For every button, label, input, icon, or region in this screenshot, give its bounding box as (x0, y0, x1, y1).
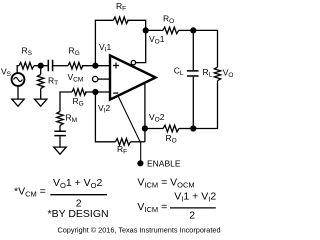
wire RF lower feedback (95, 92, 115, 142)
svg-text:ENABLE: ENABLE (147, 159, 181, 169)
svg-text:VI1 + VI2: VI1 + VI2 (174, 191, 216, 204)
resistor RF (upper) (113, 17, 128, 24)
wire capacitor to RG (53, 65, 68, 67)
node top right (190, 27, 196, 33)
wire RG lower to op-amp - input (85, 91, 110, 93)
resistor RM (57, 112, 63, 126)
wire RL to bottom rail (193, 81, 217, 129)
wire RG to op-amp + input (82, 65, 110, 67)
wire CL branch top (192, 30, 194, 70)
capacitor CL (187, 71, 199, 76)
wire bottom node to RO lower (179, 128, 193, 130)
wire VO1 rail with RO (146, 29, 163, 31)
ground (VS) (12, 99, 24, 106)
resistor RO (upper) (163, 27, 179, 34)
node VO1 (143, 27, 149, 33)
resistor RL (214, 67, 220, 80)
wire RO to top node (179, 29, 194, 31)
ground (RT) (35, 99, 47, 106)
resistor RO (lower) (163, 125, 179, 132)
ENABLE terminal (137, 160, 143, 166)
wire top node to RL corner (193, 30, 217, 67)
wire capacitor to ground (59, 136, 61, 147)
wire CL to bottom node (192, 77, 194, 129)
wire RT branch (40, 66, 42, 75)
node VCM (open circle) (93, 76, 98, 81)
wire RS to capacitor (34, 65, 48, 67)
resistor RS (19, 62, 34, 69)
wire VS bottom to ground (17, 86, 19, 99)
ground (RM) (54, 147, 66, 154)
capacitor (below RM) (54, 131, 66, 135)
wire RF upper to VO1 node (127, 20, 146, 30)
wire op-amp lower output down (144, 84, 146, 142)
resistor RG (lower) (72, 89, 86, 96)
wire bubble to VO1 node (136, 30, 146, 62)
wire RF upper feedback (95, 20, 113, 65)
svg-text:Copyright © 2016, Texas Instru: Copyright © 2016, Texas Instruments Inco… (57, 225, 220, 234)
svg-text:*BY DESIGN: *BY DESIGN (48, 208, 109, 220)
wire RT to ground (40, 88, 42, 99)
node VO2 (142, 125, 148, 131)
wire RF lower to output branch (131, 141, 145, 143)
resistor RG (upper) (68, 62, 83, 69)
wire RM branch corner (60, 92, 72, 112)
node VI1 (92, 63, 98, 69)
wire VCM to op-amp (98, 78, 110, 80)
source VS (12, 73, 25, 86)
resistor RF (lower) (115, 139, 130, 146)
capacitor C (input coupling) (48, 60, 52, 71)
node bottom right (190, 125, 196, 131)
minus input symbol (113, 92, 118, 94)
op-amp U1 (110, 55, 156, 99)
wire RM to capacitor (59, 125, 61, 130)
wire VS top to RS (17, 66, 19, 73)
resistor RT (38, 75, 44, 89)
svg-text:2: 2 (189, 210, 195, 222)
wire RO lower to VO2 node (145, 128, 163, 130)
node VI2 (92, 89, 98, 95)
wire ENABLE diagonal (118, 95, 141, 160)
output bubble (inverting output) (131, 60, 135, 64)
junction RS/RT (38, 63, 44, 69)
plus input symbol (113, 63, 119, 69)
